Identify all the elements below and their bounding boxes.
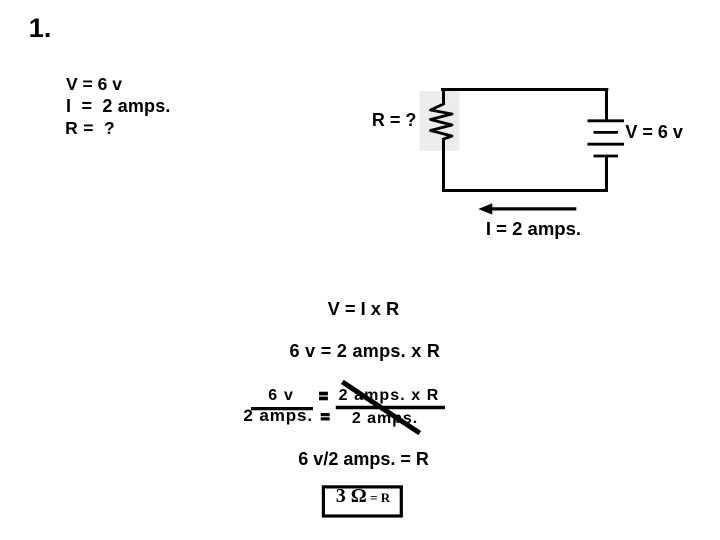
wire right upper <box>605 88 608 121</box>
fraction numerator 2 amps. x R <box>339 388 440 404</box>
equation V = I x R <box>328 300 400 318</box>
fraction denominator 2 amps. <box>243 407 313 424</box>
wire bottom <box>442 189 608 192</box>
label V = 6 v <box>625 123 683 141</box>
wire left lower <box>442 138 445 192</box>
equals sign lower (fraction) <box>321 413 330 420</box>
label I = 2 amps. <box>486 220 581 239</box>
fraction bar right <box>336 406 445 409</box>
wire left upper stub <box>442 88 445 105</box>
battery V1 plate 4 short <box>594 155 619 158</box>
equation 6 v/2 amps. = R <box>298 450 429 468</box>
equation 6 v = 2 amps. x R <box>290 342 441 360</box>
resistor R zigzag <box>431 104 453 139</box>
fraction bar left <box>251 407 313 410</box>
current direction arrow <box>478 203 576 214</box>
wire right lower <box>605 157 608 193</box>
fraction denominator 2 amps. right <box>352 411 418 427</box>
given value I = 2 amps. <box>66 97 171 115</box>
given value V = 6 v <box>66 76 122 94</box>
answer 3 ohm = R <box>336 486 390 506</box>
wire top <box>441 88 608 91</box>
fraction numerator 6 v <box>268 388 294 404</box>
problem number <box>29 15 52 42</box>
label R = ? <box>372 111 417 129</box>
battery V1 plate 3 long <box>588 143 625 146</box>
resistor highlight box <box>420 91 460 151</box>
answer box <box>323 487 401 516</box>
strikethrough diagonal over 2 amps. <box>342 382 420 433</box>
equals sign upper (fraction) <box>319 392 328 401</box>
given value R = ? <box>65 120 115 138</box>
battery V1 plate 2 short <box>594 131 619 134</box>
battery V1 plate 1 long <box>588 119 625 122</box>
